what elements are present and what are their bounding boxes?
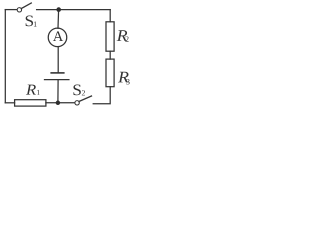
- wire battery to bottom node: [57, 80, 59, 103]
- resistor R3: [106, 59, 114, 87]
- wire bottom-left segment: [5, 102, 14, 104]
- wire between R2 and R3: [109, 51, 111, 59]
- wire top segment to right corner: [37, 9, 111, 11]
- label S1: [26, 16, 37, 27]
- battery (cell): [45, 73, 69, 80]
- resistor R2: [106, 22, 114, 51]
- label S2: [73, 85, 85, 96]
- switch S2: [75, 96, 92, 105]
- wire ammeter to battery: [57, 47, 59, 73]
- wire top-left segment: [5, 9, 16, 11]
- resistor R1: [15, 100, 46, 106]
- node junction top: [56, 7, 61, 12]
- ammeter A: [48, 28, 67, 47]
- wire from R1 to S2 pivot: [46, 102, 75, 104]
- wire right vertical upper: [109, 10, 111, 22]
- wire right vertical lower and bottom-right segment: [93, 87, 110, 104]
- label R3: [118, 72, 130, 85]
- label R1: [26, 85, 40, 95]
- wire left vertical: [4, 10, 6, 103]
- switch S1: [17, 3, 31, 12]
- node junction bottom: [56, 101, 61, 106]
- wire ammeter branch from top node: [57, 10, 60, 29]
- label R2: [117, 30, 129, 41]
- label A (ammeter face): [53, 31, 63, 41]
